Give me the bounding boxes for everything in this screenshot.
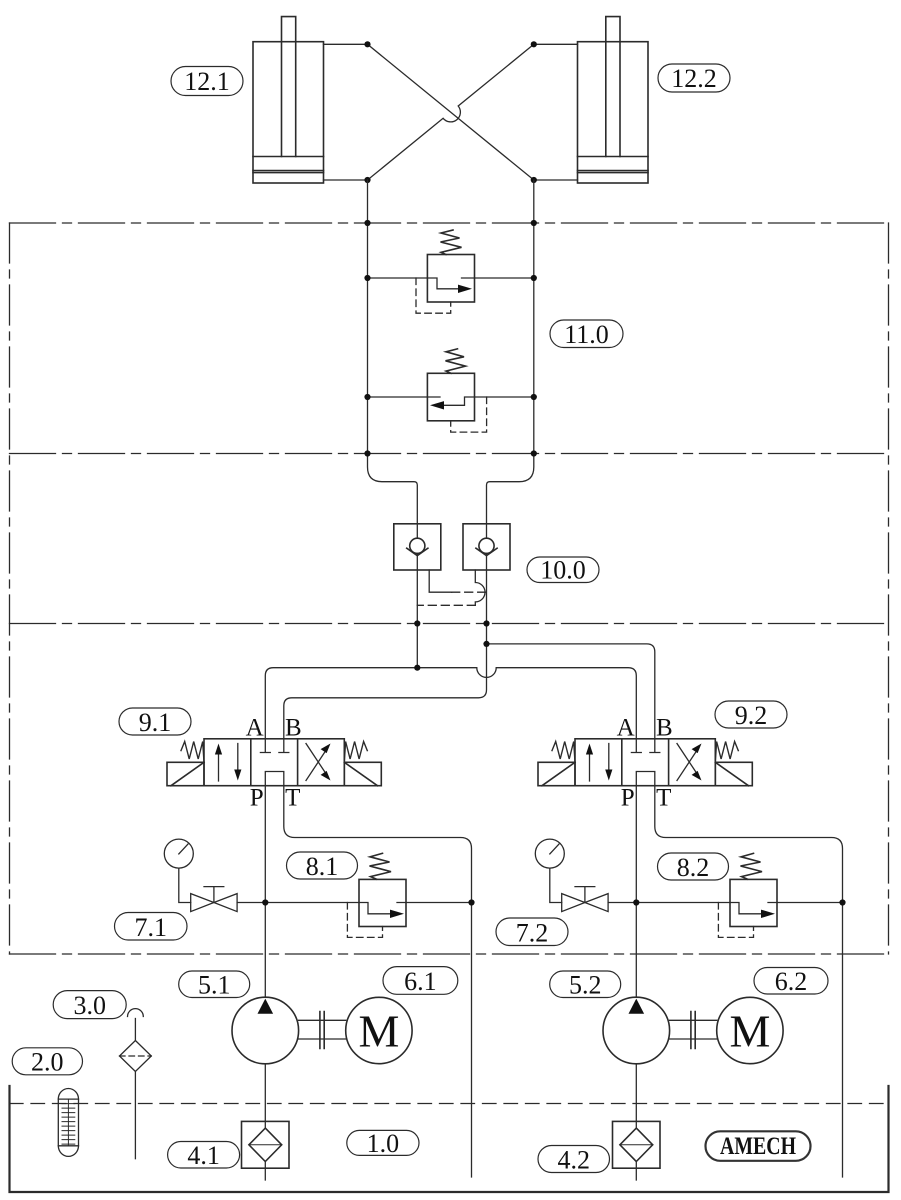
pressure gauge 7.x xyxy=(164,839,193,868)
label 12.2 xyxy=(658,64,730,92)
relief valve 11.0A arrow xyxy=(427,278,474,289)
svg-text:4.2: 4.2 xyxy=(557,1146,590,1175)
cylinder 12.1 top port wire xyxy=(324,43,368,45)
label 2.0 xyxy=(12,1048,82,1075)
label 8.1 xyxy=(287,852,358,879)
svg-text:4.1: 4.1 xyxy=(187,1141,220,1170)
label 5.2 xyxy=(550,971,621,998)
solenoid right xyxy=(344,762,381,785)
relief valve 11.0B arrow xyxy=(427,397,474,405)
relief valve 11.0B pilot line xyxy=(451,397,487,432)
svg-text:12.1: 12.1 xyxy=(184,67,230,96)
right position crossed arrows xyxy=(306,744,325,781)
svg-text:P: P xyxy=(250,784,264,811)
label 8.2 xyxy=(658,853,729,880)
label 7.2 xyxy=(496,918,568,946)
wire: 11.0B inlet xyxy=(368,396,428,398)
wire: pump suction xyxy=(264,1064,266,1128)
svg-text:2.0: 2.0 xyxy=(31,1048,64,1077)
right power circuit (copy) xyxy=(535,786,845,1180)
center position blocked A and B xyxy=(260,739,288,753)
shaft and coupling xyxy=(299,1020,346,1039)
wire: left S-curve into check valve 10.0L xyxy=(368,454,418,524)
relief valve 8.x spring xyxy=(370,853,392,879)
svg-text:9.1: 9.1 xyxy=(139,708,172,737)
node: cylinder port junction dots xyxy=(364,41,537,183)
section boundary top (11.0) xyxy=(10,222,889,224)
wire: 10.0R through line xyxy=(486,524,488,644)
svg-text:1.0: 1.0 xyxy=(367,1129,400,1158)
relief valve 11.0B spring xyxy=(446,349,466,374)
cylinder 12.2 bottom port wire xyxy=(534,179,578,181)
tank fluid level dashed xyxy=(10,1103,889,1105)
relief valve 11.0B body xyxy=(427,373,474,421)
relief valve 11.0A pilot line xyxy=(416,278,451,313)
cylinder 12.1 body xyxy=(253,17,324,183)
wire: P line from valve to pump xyxy=(264,786,266,998)
svg-text:M: M xyxy=(358,1006,399,1057)
label 6.1 xyxy=(383,967,458,995)
section boundary between 11.0 and 10.0 xyxy=(10,453,889,455)
pump 5.x xyxy=(232,997,299,1064)
node A tee dot xyxy=(414,665,420,671)
wire: 10.0L through line xyxy=(416,524,418,668)
wire: pump line to relief valve 8.x xyxy=(265,902,471,904)
label 12.1 xyxy=(171,67,243,96)
cylinder 12.1 bottom port wire xyxy=(324,179,368,181)
svg-text:9.2: 9.2 xyxy=(735,701,768,730)
cylinder 12.2 top port wire xyxy=(534,43,578,45)
directional valve 9.1 (4/3 solenoid valve) xyxy=(167,715,381,812)
wire: T line from valve to tank return xyxy=(284,786,472,1177)
cylinder 12.2 body xyxy=(578,17,649,183)
wire: 11.0A outlet xyxy=(475,277,534,279)
svg-text:5.2: 5.2 xyxy=(569,971,602,1000)
wire: A line from valve 9.1 to valve 9.2 with jump over xyxy=(265,668,636,739)
electric motor 6.x xyxy=(346,997,412,1063)
cylinder 12.2 piston rod xyxy=(606,17,620,157)
wire: right main line from cylinder 12.2 down through section 11.0 xyxy=(533,180,535,454)
svg-text:7.1: 7.1 xyxy=(134,913,167,942)
level gauge 2.0 xyxy=(58,1088,78,1156)
wire: 11.0A inlet xyxy=(368,277,428,279)
label 9.2 xyxy=(715,701,787,728)
svg-text:3.0: 3.0 xyxy=(73,991,106,1020)
label 11.0 xyxy=(550,320,623,348)
wire: 11.0B outlet xyxy=(475,396,534,398)
section boundary left vertical xyxy=(9,223,11,954)
section boundary between 10.0 and 9.x xyxy=(10,623,889,625)
tank 1.0 outline xyxy=(10,1086,889,1192)
wire: left main line from cylinder 12.1 down through section 11.0 xyxy=(367,180,369,454)
wire: right S-curve into check valve 10.0R xyxy=(487,454,534,524)
svg-text:A: A xyxy=(246,715,264,742)
svg-text:AMECH: AMECH xyxy=(720,1133,796,1160)
node B tee dot xyxy=(483,641,489,647)
label 9.1 xyxy=(119,708,191,735)
cylinder 12.1 piston rod xyxy=(282,17,296,157)
label 3.0 xyxy=(53,991,126,1019)
label 1.0 xyxy=(347,1130,419,1155)
relief valve 11.0A body xyxy=(427,255,474,303)
check valve 10.0L body xyxy=(394,524,441,570)
svg-text:6.1: 6.1 xyxy=(404,967,437,996)
label 5.1 xyxy=(179,971,250,998)
center position P-T bridge xyxy=(265,772,284,786)
relief valve 8.x body xyxy=(359,879,406,926)
label 7.1 xyxy=(115,913,188,941)
spring left xyxy=(181,742,204,763)
pilot wire: 10.0L pilot to right main xyxy=(429,570,452,592)
left power circuit xyxy=(164,786,474,1180)
suction filter 4.x xyxy=(242,1121,290,1168)
crossed wire with jump: 12.1 bottom to 12.2 top xyxy=(368,44,534,180)
svg-text:6.2: 6.2 xyxy=(775,967,808,996)
svg-text:12.2: 12.2 xyxy=(671,64,717,93)
shutoff valve 7.x xyxy=(191,894,237,912)
svg-text:11.0: 11.0 xyxy=(564,320,609,349)
wire: B line to valve 9.2 xyxy=(487,644,655,739)
svg-text:5.1: 5.1 xyxy=(198,971,231,1000)
svg-text:8.2: 8.2 xyxy=(677,853,710,882)
svg-text:T: T xyxy=(285,784,300,811)
svg-text:10.0: 10.0 xyxy=(540,556,586,585)
label 4.2 xyxy=(538,1146,610,1173)
svg-text:8.1: 8.1 xyxy=(306,852,339,881)
node dots section 11.0 xyxy=(364,220,537,457)
label 6.2 xyxy=(754,968,828,995)
svg-text:B: B xyxy=(285,715,302,742)
check valve 10.0R body xyxy=(463,524,510,570)
crossed wire: 12.1 top to 12.2 bottom xyxy=(368,44,534,180)
AMECH logo xyxy=(706,1131,811,1161)
relief valve 8.x pilot line xyxy=(347,903,382,938)
label 10.0 xyxy=(527,557,599,583)
spring right xyxy=(344,742,367,763)
wire: B line valve 9.1 up to right check valve branch xyxy=(284,644,487,739)
label 4.1 xyxy=(168,1142,240,1169)
section boundary above power units xyxy=(10,953,889,955)
solenoid left xyxy=(167,762,204,785)
node dots on pump line xyxy=(262,899,268,905)
node dots section 10.0 xyxy=(414,620,489,626)
pilot wire: 10.0R pilot with jump over, to left main xyxy=(475,570,485,605)
relief valve 11.0A spring xyxy=(441,230,462,255)
directional valve 9.2 (copy of 9.1) xyxy=(538,715,752,812)
valve body three positions xyxy=(167,739,381,786)
left position arrows xyxy=(219,744,238,782)
svg-text:7.2: 7.2 xyxy=(516,919,549,948)
section boundary right vertical xyxy=(888,223,890,954)
breather 3.0 xyxy=(128,1009,144,1017)
